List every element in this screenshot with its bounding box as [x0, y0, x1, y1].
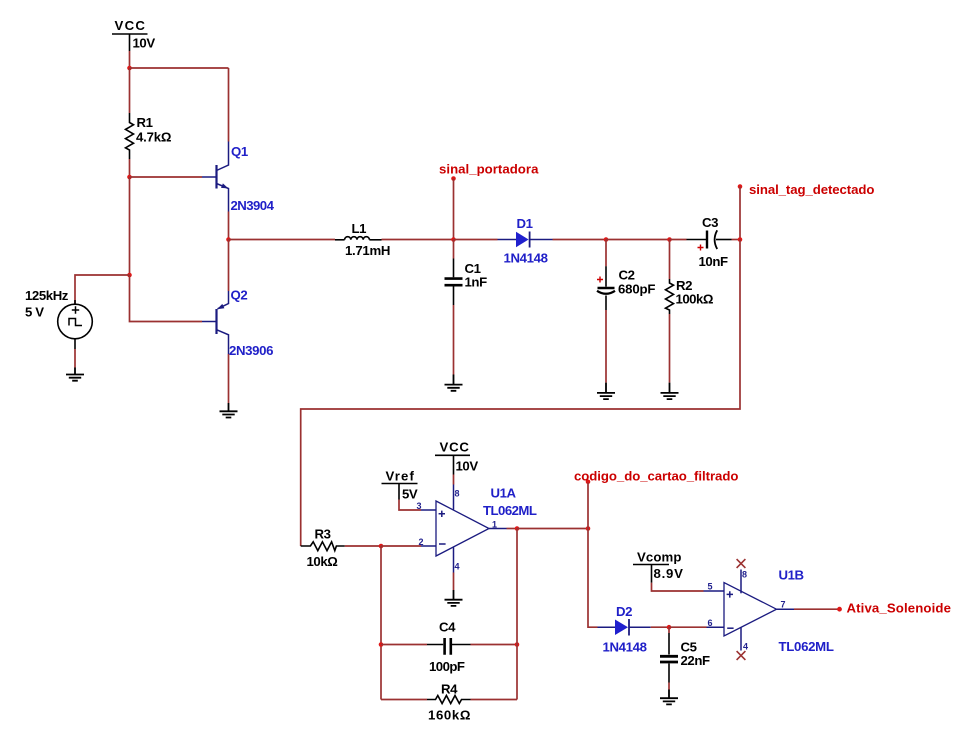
svg-text:125kHz: 125kHz — [25, 288, 69, 303]
diode D2 1N4148 — [598, 604, 651, 655]
diode D1 1N4148 — [498, 216, 553, 266]
wire D1 to C2 node — [553, 239, 607, 241]
wire source to ground — [74, 349, 76, 368]
svg-text:5 V: 5 V — [25, 305, 44, 320]
wire pin 4 to ground — [453, 573, 455, 591]
wire C1 to ground — [453, 305, 455, 375]
svg-text:codigo_do_cartao_filtrado: codigo_do_cartao_filtrado — [574, 469, 738, 484]
power Vref symbol (5V) — [382, 469, 418, 502]
wire R2 to ground — [669, 314, 671, 383]
svg-text:680pF: 680pF — [618, 282, 655, 297]
svg-text:D1: D1 — [517, 216, 533, 231]
junction node inverting input — [379, 544, 384, 549]
wire base rail down — [129, 177, 131, 275]
svg-text:5V: 5V — [402, 487, 418, 502]
svg-text:100pF: 100pF — [429, 659, 465, 674]
junction node codigo tap — [586, 526, 591, 531]
svg-text:2: 2 — [418, 537, 423, 547]
junction node C2 tap — [604, 237, 609, 242]
svg-text:sinal_tag_detectado: sinal_tag_detectado — [749, 182, 874, 197]
svg-text:C4: C4 — [439, 620, 456, 635]
svg-text:4: 4 — [743, 642, 748, 652]
op-amp U1A TL062ML — [416, 485, 536, 573]
wire Q1 collector to rail — [228, 68, 230, 142]
svg-text:3: 3 — [416, 501, 421, 511]
ground (R2) — [661, 383, 679, 400]
wire base node to Q1 base — [130, 176, 203, 178]
svg-text:U1A: U1A — [491, 486, 517, 501]
wire Q2 collector to ground — [228, 354, 230, 403]
wire C2 node to R2 node — [606, 239, 670, 241]
node sinal_tag_detectado — [738, 182, 875, 240]
svg-text:22nF: 22nF — [681, 653, 711, 668]
wire feedback left branch — [380, 546, 382, 700]
svg-text:sinal_portadora: sinal_portadora — [439, 162, 539, 177]
wire output to codigo node — [517, 528, 588, 530]
power VCC symbol (10V) top-left — [112, 18, 155, 51]
resistor R4 160kOhm — [381, 682, 517, 723]
junction node base rail — [127, 175, 132, 180]
wire L1 to C1 node — [382, 239, 454, 241]
svg-text:Ativa_Solenoide: Ativa_Solenoide — [847, 601, 951, 616]
wire VCC stub to rail — [129, 51, 131, 68]
svg-text:5: 5 — [707, 582, 712, 592]
svg-text:7: 7 — [780, 600, 785, 610]
node Ativa_Solenoide — [837, 601, 950, 616]
resistor R3 10kOhm — [301, 527, 345, 570]
wire VCC rail down to R1 — [129, 68, 131, 113]
wire to 125kHz source — [75, 275, 130, 304]
svg-text:10kΩ: 10kΩ — [307, 554, 339, 569]
svg-text:10nF: 10nF — [699, 254, 729, 269]
wire node to D1 — [454, 239, 498, 241]
wire Vref to pin 3 — [399, 500, 421, 511]
node codigo_do_cartao_filtrado — [574, 469, 738, 529]
source V1 125kHz 5V square-wave — [25, 288, 92, 349]
transistor Q2 2N3906 — [202, 240, 273, 359]
svg-text:8: 8 — [454, 489, 459, 499]
svg-text:C2: C2 — [619, 268, 635, 283]
capacitor C2 680pF polarized — [597, 240, 655, 311]
svg-text:10V: 10V — [456, 459, 479, 474]
svg-text:1nF: 1nF — [465, 275, 488, 290]
svg-text:TL062ML: TL062ML — [483, 503, 537, 518]
wire Q1 emitter to mid node — [228, 212, 230, 240]
no-connect X pin 8 — [737, 559, 746, 568]
wire R1 bottom to base node — [129, 159, 131, 177]
svg-text:2N3906: 2N3906 — [229, 343, 273, 358]
power VCC symbol (10V) at U1A — [435, 440, 478, 475]
wire VCC to pin 8 — [453, 475, 455, 485]
resistor R2 100kOhm — [666, 240, 714, 315]
ground (U1A pin 4) — [445, 590, 463, 606]
wire Vcomp to pin 5 — [652, 583, 704, 591]
svg-text:6: 6 — [707, 618, 712, 628]
junction node emitters — [226, 237, 231, 242]
capacitor C3 10nF polarized — [670, 215, 732, 269]
wire codigo node down to D2 — [588, 529, 598, 628]
svg-text:1N4148: 1N4148 — [603, 640, 647, 655]
junction node tag output — [738, 237, 743, 242]
wire emitters node to L1 — [229, 239, 336, 241]
svg-text:Q1: Q1 — [231, 144, 248, 159]
junction node C4 left — [379, 642, 384, 647]
junction node output feedback — [515, 526, 520, 531]
ground (Q2) — [220, 403, 238, 418]
svg-text:D2: D2 — [616, 604, 632, 619]
svg-text:U1B: U1B — [779, 568, 804, 583]
svg-text:R3: R3 — [315, 527, 331, 542]
ground (source) — [66, 368, 84, 381]
svg-text:R1: R1 — [137, 115, 153, 130]
wire top rail to Q1 collector — [130, 67, 229, 69]
svg-text:Vcomp: Vcomp — [637, 550, 681, 565]
resistor R1 4.7kOhm — [126, 113, 172, 159]
svg-text:TL062ML: TL062ML — [779, 639, 834, 654]
no-connect X pin 4 — [737, 651, 746, 660]
junction node C1 tap — [451, 237, 456, 242]
wire node to pin 6 — [669, 626, 707, 628]
wire base rail to Q2 base — [130, 275, 203, 322]
svg-text:10V: 10V — [133, 36, 156, 51]
transistor Q1 2N3904 — [202, 142, 275, 214]
wire R3 to inverting node — [345, 545, 381, 547]
ground (C2) — [597, 383, 615, 400]
capacitor C5 22nF — [660, 627, 710, 689]
node sinal_portadora — [439, 162, 539, 240]
svg-text:1N4148: 1N4148 — [504, 251, 548, 266]
junction node C5 tap — [667, 625, 672, 630]
wire node to op-amp pin 2 — [381, 545, 421, 547]
junction node VCC rail — [127, 66, 132, 71]
wire C3 to output node — [732, 239, 741, 241]
svg-text:1.71mH: 1.71mH — [345, 243, 390, 258]
svg-text:4.7kΩ: 4.7kΩ — [136, 130, 172, 145]
wire D2 to C5 node — [651, 626, 669, 628]
power Vcomp symbol (8.9V) — [633, 550, 683, 583]
svg-text:R4: R4 — [441, 682, 458, 697]
svg-text:160kΩ: 160kΩ — [428, 708, 471, 723]
junction node C4 right — [515, 642, 520, 647]
wire feedback right branch — [516, 529, 518, 700]
svg-text:8: 8 — [742, 570, 747, 580]
svg-text:VCC: VCC — [440, 440, 470, 455]
svg-text:VCC: VCC — [115, 18, 146, 33]
wire tag node down and across to R3 — [301, 240, 740, 547]
wire U1B output — [794, 608, 840, 610]
junction node source tap — [127, 273, 132, 278]
wire C2 to ground — [605, 310, 607, 383]
capacitor C1 1nF — [445, 240, 488, 306]
ground (C1) — [445, 375, 463, 391]
ground (C5) — [660, 690, 678, 705]
op-amp U1B TL062ML — [704, 568, 834, 655]
svg-text:100kΩ: 100kΩ — [676, 292, 714, 307]
svg-text:L1: L1 — [352, 221, 367, 236]
svg-text:Q2: Q2 — [231, 288, 248, 303]
svg-text:4: 4 — [454, 562, 459, 572]
junction node R2 tap — [667, 237, 672, 242]
svg-text:8.9V: 8.9V — [654, 566, 684, 581]
svg-text:2N3904: 2N3904 — [231, 198, 275, 213]
capacitor C4 100pF — [381, 620, 517, 675]
svg-text:1: 1 — [492, 520, 497, 530]
svg-text:C3: C3 — [702, 215, 718, 230]
wire op-amp output — [507, 528, 518, 530]
inductor L1 1.71mH — [335, 221, 390, 258]
